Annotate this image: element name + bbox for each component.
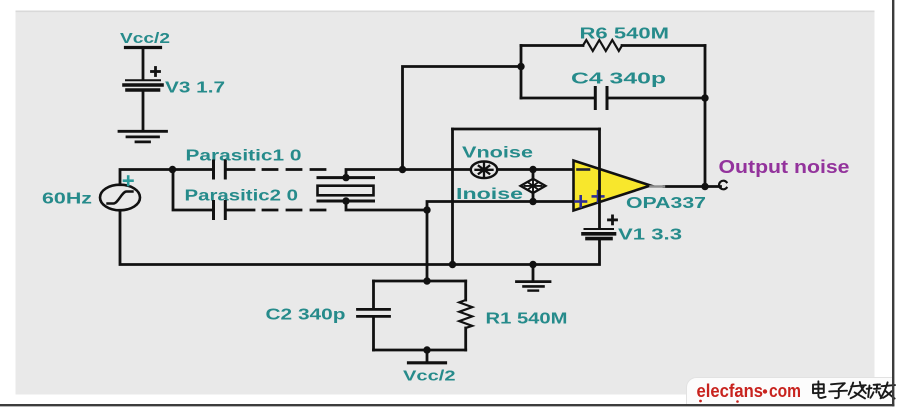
capacitor Parasitic1 xyxy=(214,161,226,178)
logo elecfans.com xyxy=(687,378,896,406)
capacitor Parasitic2 xyxy=(214,202,226,219)
power terminal Vcc/2 top xyxy=(126,46,161,49)
node sensor bottom plate xyxy=(342,197,349,204)
power terminal Vcc/2 bottom xyxy=(409,361,446,364)
wire noise box left edge xyxy=(451,129,454,265)
node output tee xyxy=(701,183,708,190)
ground below V3 xyxy=(119,131,167,142)
svg-text:Vcc/2: Vcc/2 xyxy=(403,368,456,385)
node sensor top plate xyxy=(342,174,349,181)
svg-text:Vnoise: Vnoise xyxy=(462,145,534,162)
node feedback left tee xyxy=(517,63,524,70)
svg-text:Output noise: Output noise xyxy=(719,157,850,177)
wire V3 bottom lead xyxy=(142,92,145,131)
wire down to C2R1 block xyxy=(426,210,429,281)
capacitor C2 xyxy=(358,281,390,350)
wire source bottom + ground rail xyxy=(120,210,600,264)
node inverting node xyxy=(399,166,406,173)
battery V1 xyxy=(583,216,617,239)
node Vnoise-Inoise top xyxy=(529,166,536,173)
node block bottom xyxy=(423,346,430,353)
node block top xyxy=(423,277,430,284)
wire feedback vertical from inverting node xyxy=(403,67,522,171)
svg-text:60Hz: 60Hz xyxy=(42,191,92,208)
resistor R1 xyxy=(459,281,472,350)
svg-text:com: com xyxy=(769,380,801,401)
resistor R6 xyxy=(521,40,705,51)
battery V3 xyxy=(124,68,162,91)
wire feedback loop left vertical xyxy=(520,46,523,99)
svg-text:C4 340p: C4 340p xyxy=(571,71,666,88)
wire source top to parasitic junction xyxy=(120,170,212,185)
wire row B jog to opamp noninverting input xyxy=(427,202,574,211)
wire noise box top edge to opamp supply xyxy=(453,128,600,131)
capacitor C4 xyxy=(521,88,705,109)
svg-text:OPA337: OPA337 xyxy=(626,195,706,212)
node Inoise bottom xyxy=(529,198,536,205)
svg-text:C2 340p: C2 340p xyxy=(266,307,346,324)
wire C2R1 block bottom edge xyxy=(374,349,466,352)
wire dashed row B xyxy=(263,209,329,212)
wire Parasitic1 right lead xyxy=(227,168,254,171)
wire sensor bottom lead xyxy=(346,201,427,210)
noise source Vnoise xyxy=(471,162,497,179)
svg-text:R6 540M: R6 540M xyxy=(580,25,670,42)
wire opamp supply vertical xyxy=(598,129,601,228)
noise source Inoise xyxy=(521,170,546,202)
wire Parasitic2 right lead xyxy=(227,209,254,212)
svg-text:R1 540M: R1 540M xyxy=(486,311,568,328)
node row B corner xyxy=(423,206,430,213)
svg-text:Vcc/2: Vcc/2 xyxy=(120,30,170,47)
wire feedback right vertical to output xyxy=(704,46,707,187)
wire sensor top lead to opamp inverting input xyxy=(346,170,574,178)
node ground rail center xyxy=(529,261,536,268)
source 60Hz xyxy=(100,177,140,211)
op-amp U1 OPA337 xyxy=(574,161,651,211)
output terminal xyxy=(719,181,727,190)
svg-text:Parasitic2 0: Parasitic2 0 xyxy=(185,187,299,204)
node parasitic junction xyxy=(169,166,176,173)
sensor element body xyxy=(318,186,374,196)
svg-text:Parasitic1 0: Parasitic1 0 xyxy=(186,148,302,165)
wire junction down to Parasitic2 row xyxy=(173,170,212,211)
sensor element plates xyxy=(318,178,374,201)
node ground rail left xyxy=(449,261,456,268)
wire to Vcc/2 terminal xyxy=(426,350,429,362)
ground below rail xyxy=(517,265,551,291)
wire output xyxy=(664,185,721,188)
wire dashed row A xyxy=(263,168,329,171)
wire V3 top lead xyxy=(142,48,145,79)
svg-text:V3 1.7: V3 1.7 xyxy=(165,80,225,97)
node C4 right tee xyxy=(701,94,708,101)
svg-text:Inoise: Inoise xyxy=(456,186,524,203)
wire C2R1 block top edge xyxy=(374,280,466,283)
svg-text:elecfans: elecfans xyxy=(697,380,764,401)
svg-text:V1 3.3: V1 3.3 xyxy=(618,227,683,244)
